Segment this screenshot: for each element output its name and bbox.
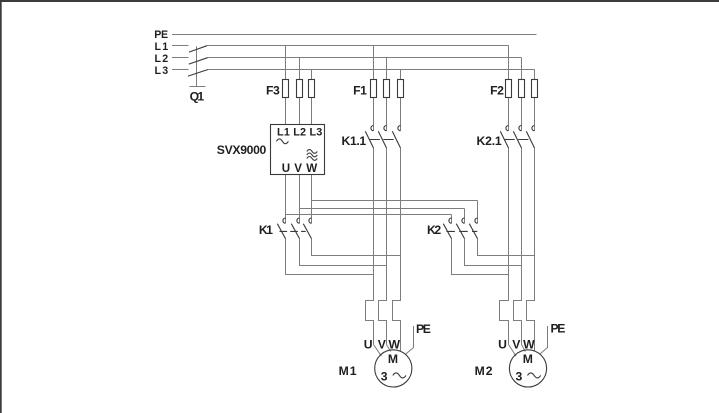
switch Q1 blade L3 <box>188 70 208 77</box>
contactor K1.1 pole1 blade <box>365 131 373 148</box>
contactor K1 pole2 blade <box>291 224 299 239</box>
wire K2.1 output pole1 down to M2 with jog <box>500 148 509 345</box>
motor M2 wave symbol <box>528 373 541 378</box>
node L3 bus <box>172 70 535 80</box>
svg-text:M1: M1 <box>339 364 357 378</box>
wire M2 PE lead <box>540 326 548 354</box>
wire branch V to K2 pole2 <box>300 209 465 224</box>
wire branch U to K2 pole1 <box>286 215 452 224</box>
wire F2 to K2.1 <box>509 98 535 131</box>
contactor K2 linkage <box>446 230 477 232</box>
contactor K1 pole1 blade <box>277 224 285 239</box>
contactor K2 pole3 blade <box>469 224 477 239</box>
node L1 bus <box>172 46 509 80</box>
contactor K1 pole3 arc <box>309 218 312 223</box>
svg-text:M: M <box>523 352 533 366</box>
svg-text:U: U <box>364 338 373 352</box>
wire taps L1/L2/L3 to F3 <box>286 46 312 80</box>
fuse F1 pole3 <box>398 80 404 98</box>
contactor K2 pole1 blade <box>443 224 451 239</box>
wire M2 motor leads <box>509 345 535 357</box>
contactor K2 pole2 blade <box>456 224 464 239</box>
contactor K1.1 pole2 arc <box>384 126 387 131</box>
svg-text:K2: K2 <box>427 223 441 237</box>
svg-text:F2: F2 <box>490 83 504 97</box>
wire taps L1/L2/L3 to F1 <box>374 46 401 80</box>
symbol AC wave in box <box>276 139 288 144</box>
contactor K2 pole1 arc <box>449 218 452 223</box>
fuse F1 pole1 <box>371 80 377 98</box>
contactor K2.1 pole1 blade <box>500 131 508 148</box>
wire K2 outputs to M2 columns <box>452 239 535 275</box>
wire F1 to K1.1 <box>374 98 401 131</box>
wire branch W to K2 pole3 <box>312 201 478 224</box>
svg-text:M2: M2 <box>475 364 493 378</box>
svg-text:V: V <box>512 338 521 352</box>
switch Q1 blade L1 <box>189 46 207 52</box>
svg-text:PE: PE <box>551 321 566 335</box>
contactor K1.1 pole1 arc <box>371 126 374 131</box>
svg-text:PE: PE <box>416 322 431 336</box>
contactor K1 linkage <box>280 230 306 232</box>
wire F3 to SVX9000 inputs <box>286 98 312 125</box>
contactor K1.1 pole3 blade <box>392 131 400 148</box>
contactor K2.1 pole3 blade <box>526 131 534 148</box>
symbol triple wave in box <box>307 150 318 161</box>
svg-text:K1.1: K1.1 <box>342 134 367 148</box>
motor M1 circle <box>375 350 412 387</box>
fuse F1 pole2 <box>384 80 390 98</box>
svg-text:F3: F3 <box>266 83 280 97</box>
svg-text:U V W: U V W <box>282 162 318 175</box>
contactor K2.1 pole2 arc <box>519 126 522 131</box>
svg-text:3: 3 <box>381 369 388 383</box>
PE bus <box>172 34 537 36</box>
svg-text:L1: L1 <box>155 41 169 53</box>
contactor K2.1 linkage <box>504 139 529 141</box>
svg-text:L2: L2 <box>155 53 169 65</box>
contactor K2.1 pole2 blade <box>513 131 521 148</box>
contactor K1.1 pole3 arc <box>398 126 401 131</box>
left border <box>0 0 2 413</box>
svg-text:3: 3 <box>516 369 523 383</box>
svg-text:W: W <box>389 338 401 352</box>
contactor K1 pole3 blade <box>303 224 311 239</box>
svg-text:PE: PE <box>154 29 168 41</box>
switch Q1 blade L2 <box>189 58 208 64</box>
wire M1 motor leads <box>374 345 401 357</box>
wire SVX9000 outputs U V W down to K1 <box>286 175 312 224</box>
wire Q1 linkage <box>190 46 206 86</box>
contactor K1 pole1 arc <box>283 218 286 223</box>
svg-text:K1: K1 <box>259 223 273 237</box>
svg-text:L3: L3 <box>155 65 169 77</box>
node L2 bus <box>172 58 522 80</box>
fuse F3 pole2 <box>297 80 303 98</box>
fuse F2 pole1 <box>506 80 512 98</box>
motor M1 wave symbol <box>393 373 406 378</box>
contactor K2 pole3 arc <box>475 218 478 223</box>
svg-text:M: M <box>388 352 398 366</box>
contactor K1.1 pole2 blade <box>378 131 386 148</box>
drive SVX9000 box <box>271 125 325 175</box>
svg-text:W: W <box>523 338 535 352</box>
svg-text:SVX9000: SVX9000 <box>217 143 267 157</box>
wire K2.1 output pole2 down to M2 with jog <box>514 148 522 345</box>
svg-text:Q1: Q1 <box>190 90 205 104</box>
top border <box>0 0 719 2</box>
fuse F3 pole1 <box>283 80 289 98</box>
contactor K2.1 pole3 arc <box>532 126 535 131</box>
svg-text:K2.1: K2.1 <box>477 134 502 148</box>
svg-text:F1: F1 <box>353 83 367 97</box>
svg-text:L1 L2 L3: L1 L2 L3 <box>277 126 322 138</box>
fuse F2 pole3 <box>532 80 538 98</box>
wire K1.1 output pole2 down to M1 with jog <box>379 148 387 345</box>
contactor K2 pole2 arc <box>462 218 465 223</box>
svg-text:V: V <box>378 338 387 352</box>
wire K1 outputs to M1 columns <box>286 239 401 275</box>
contactor K2.1 pole1 arc <box>506 126 509 131</box>
fuse F3 pole3 <box>309 80 315 98</box>
contactor K1.1 linkage <box>370 139 395 141</box>
svg-text:U: U <box>498 338 507 352</box>
motor M2 circle <box>509 350 546 387</box>
wire K2.1 output pole3 down to M2 with jog <box>527 148 535 345</box>
fuse F2 pole2 <box>519 80 525 98</box>
wire M1 PE lead <box>406 326 414 354</box>
contactor K1 pole2 arc <box>297 218 300 223</box>
wire K1.1 output pole1 down to M1 with jog <box>366 148 374 345</box>
wire K1.1 output pole3 down to M1 with jog <box>393 148 401 345</box>
